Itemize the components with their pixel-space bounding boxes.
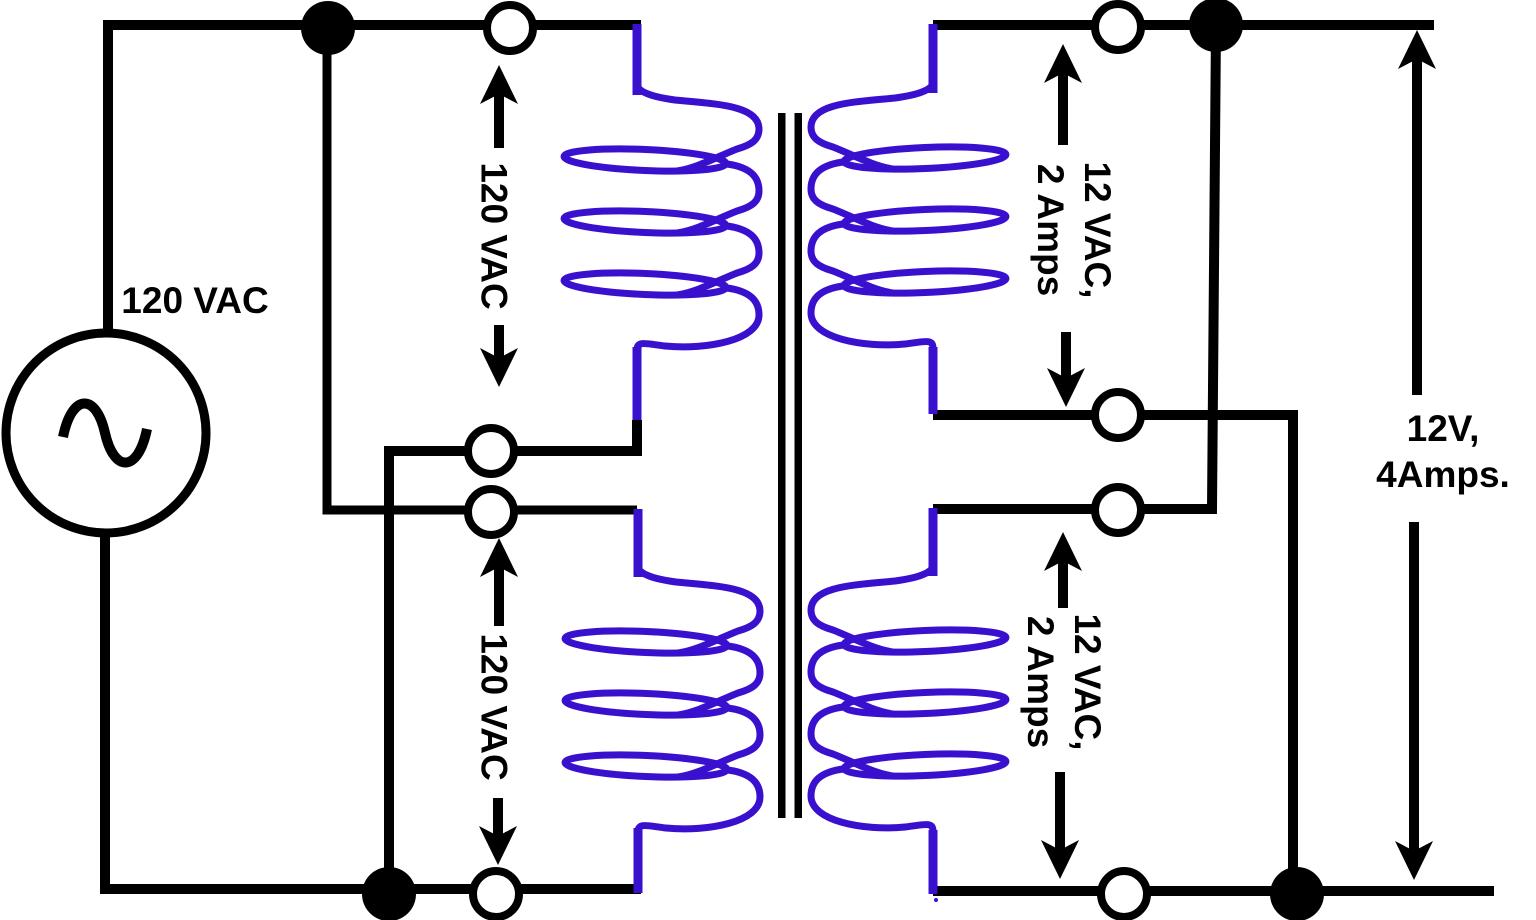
- svg-text:12 VAC,2 Amps: 12 VAC,2 Amps: [1030, 161, 1118, 298]
- dimension arrow down: primary 1 voltage: [480, 348, 518, 387]
- primary winding L1: [564, 84, 759, 350]
- svg-text:120 VAC: 120 VAC: [474, 162, 515, 309]
- junction dot bottom-right: [1270, 867, 1324, 920]
- primary winding L2: [565, 566, 760, 832]
- terminal: primary 1 top: [487, 5, 533, 51]
- shaft: [493, 798, 503, 836]
- shaft: [1409, 522, 1419, 852]
- dimension arrow down: secondary 2: [1041, 840, 1079, 879]
- wire: secondary 2 bottom to output bottom rail: [933, 886, 1494, 896]
- secondary winding L3 top lead: [929, 24, 938, 93]
- stray speck: [934, 898, 938, 902]
- wire: secondary 1 bottom terminal to bottom junction: [933, 415, 1293, 894]
- shaft: [1061, 332, 1071, 378]
- secondary winding L4 top lead: [929, 508, 938, 576]
- shaft: [1055, 772, 1065, 850]
- dimension arrow up: primary 1 voltage: [480, 65, 518, 104]
- svg-text:4Amps.: 4Amps.: [1376, 454, 1510, 495]
- wire: junction drop to primary 2 top terminal: [327, 28, 637, 510]
- wire: bottom-left net (source bottom to primary 2 bottom): [105, 533, 641, 889]
- secondary winding L4 bottom lead: [929, 830, 938, 894]
- terminal: primary 1 bottom: [468, 428, 514, 474]
- svg-text:120 VAC: 120 VAC: [474, 633, 515, 780]
- primary winding L2 bottom lead: [634, 828, 643, 893]
- shaft: [1412, 58, 1422, 395]
- secondary winding L4: [811, 565, 1006, 831]
- wire: top-right junction drop to secondary 2 top terminal: [933, 25, 1216, 509]
- dimension arrow down: output 12V rail: [1395, 841, 1433, 880]
- terminal: secondary 1 bottom: [1095, 392, 1141, 438]
- terminal: secondary 1 top: [1095, 4, 1141, 50]
- junction dot top-right: [1189, 0, 1243, 52]
- AC source V1 120 VAC: [6, 333, 206, 533]
- terminal: primary 2 bottom: [473, 871, 519, 917]
- secondary winding L3 bottom lead: [929, 347, 938, 414]
- primary winding L1 top lead: [633, 24, 642, 95]
- terminal: secondary 2 top: [1095, 487, 1141, 533]
- dimension arrow up: secondary 1: [1044, 44, 1082, 83]
- primary winding L2 top lead: [634, 509, 643, 577]
- shaft: [494, 566, 504, 626]
- shaft: [1058, 72, 1068, 145]
- shaft: [494, 325, 504, 358]
- svg-text:12V,: 12V,: [1407, 408, 1480, 449]
- wire: bottom junction rise to primary 1 bottom terminal: [389, 420, 637, 894]
- svg-text:120 VAC: 120 VAC: [121, 280, 268, 321]
- dimension arrow up: output 12V rail: [1398, 30, 1436, 69]
- shaft: [1058, 560, 1068, 608]
- dimension arrow up: secondary 2: [1044, 532, 1082, 571]
- wire: secondary 1 top to output top rail: [933, 20, 1434, 30]
- dimension arrow down: secondary 1: [1047, 368, 1085, 407]
- terminal: primary 2 top: [468, 489, 514, 535]
- secondary winding L3: [811, 82, 1006, 348]
- junction dot top-left: [301, 1, 355, 55]
- primary winding L1 bottom lead: [633, 347, 642, 420]
- junction dot bottom-left: [362, 867, 416, 920]
- wire: top-left net (source top to primary 1 top): [108, 25, 641, 333]
- svg-text:12 VAC,2 Amps: 12 VAC,2 Amps: [1020, 613, 1108, 750]
- transformer core: [778, 113, 786, 818]
- dimension arrow up: primary 2 voltage: [480, 538, 518, 577]
- terminal: secondary 2 bottom: [1101, 871, 1147, 917]
- dimension arrow down: primary 2 voltage: [479, 826, 517, 865]
- shaft: [494, 94, 504, 148]
